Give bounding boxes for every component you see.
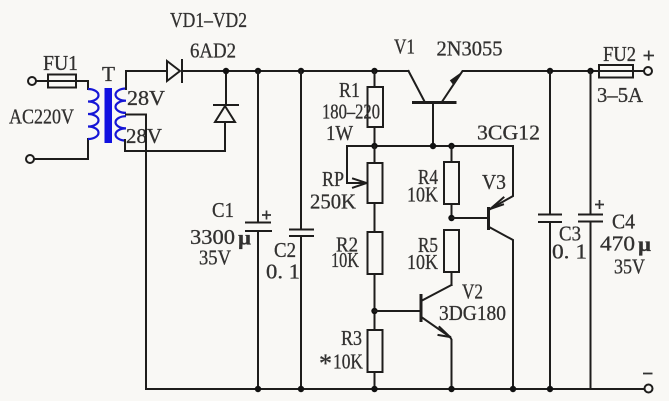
svg-text:µ: µ bbox=[238, 226, 251, 250]
capacitor C1 bbox=[246, 71, 271, 389]
label 3300u bbox=[190, 225, 251, 250]
capacitor C2 bbox=[290, 71, 313, 389]
label V2 bbox=[462, 280, 483, 304]
transformer T core bbox=[105, 88, 113, 143]
svg-text:RP: RP bbox=[322, 167, 344, 191]
svg-text:C2: C2 bbox=[274, 238, 296, 262]
svg-text:3–5A: 3–5A bbox=[597, 83, 644, 107]
capacitor C3 bbox=[539, 71, 561, 389]
label *10K bbox=[319, 349, 363, 378]
label 0.1 C3 bbox=[552, 240, 587, 264]
label 10K R2 bbox=[331, 248, 359, 272]
label 10K R5 bbox=[407, 250, 438, 274]
label plus FU2 bbox=[644, 51, 655, 61]
svg-text:35V: 35V bbox=[199, 246, 231, 270]
potentiometer RP bbox=[368, 146, 383, 232]
svg-text:FU1: FU1 bbox=[43, 51, 78, 75]
label 3CG12 bbox=[477, 121, 540, 145]
resistor R1 bbox=[368, 71, 384, 146]
svg-text:180–220: 180–220 bbox=[322, 100, 380, 124]
label R1 bbox=[339, 78, 360, 102]
transistor V2 bbox=[420, 285, 452, 389]
label C1 bbox=[212, 198, 234, 222]
transformer T secondary winding bbox=[116, 89, 127, 141]
label 35V C4 bbox=[614, 255, 645, 279]
node rail C1 bbox=[255, 68, 261, 74]
svg-text:3DG180: 3DG180 bbox=[439, 301, 506, 325]
diode VD1 bbox=[167, 60, 182, 82]
label R4 bbox=[418, 165, 438, 189]
node R2 R3 base V2 bbox=[371, 308, 377, 314]
svg-text:VD1–VD2: VD1–VD2 bbox=[170, 8, 247, 32]
label FU2 bbox=[603, 42, 636, 66]
svg-text:0. 1: 0. 1 bbox=[552, 240, 587, 264]
label 10K R4 bbox=[407, 183, 438, 207]
label 0.1 C2 bbox=[266, 260, 300, 284]
svg-text:10K: 10K bbox=[333, 350, 363, 374]
label R5 bbox=[418, 233, 438, 257]
svg-text:0. 1: 0. 1 bbox=[266, 260, 300, 284]
svg-text:T: T bbox=[102, 62, 115, 86]
svg-text:28V: 28V bbox=[127, 86, 165, 110]
wire RP wiper bbox=[347, 146, 367, 188]
label 35V C1 bbox=[199, 246, 231, 270]
svg-text:10K: 10K bbox=[331, 248, 359, 272]
svg-text:*: * bbox=[319, 349, 332, 378]
svg-text:V3: V3 bbox=[482, 170, 506, 194]
node bottom V3 bbox=[510, 386, 516, 392]
node mid R4 bbox=[448, 143, 454, 149]
label R3 bbox=[341, 326, 362, 350]
node bottom V2 bbox=[448, 386, 454, 392]
resistor R5 bbox=[444, 230, 459, 285]
label 28V bottom bbox=[126, 124, 162, 148]
svg-text:V1: V1 bbox=[394, 35, 415, 59]
wire secondary bottom to VD2 bbox=[125, 140, 225, 151]
label R2 bbox=[336, 233, 358, 257]
svg-text:1W: 1W bbox=[326, 121, 353, 145]
resistor R3 bbox=[368, 330, 383, 389]
node rail C4 bbox=[587, 68, 593, 74]
label 470u bbox=[600, 232, 651, 257]
wire bottom rail bbox=[146, 388, 645, 390]
fuse FU1 bbox=[48, 75, 76, 88]
svg-text:AC220V: AC220V bbox=[9, 105, 74, 129]
label 3DG180 bbox=[439, 301, 506, 325]
fuse FU2 bbox=[599, 65, 633, 78]
terminal output plus bbox=[644, 67, 652, 75]
wire secondary top to rail bbox=[126, 71, 167, 89]
node rail C3 bbox=[547, 68, 553, 74]
node bottom C3 bbox=[547, 386, 553, 392]
wire V2 base bbox=[375, 310, 420, 312]
resistor R4 bbox=[444, 146, 459, 218]
wire input bottom to primary bbox=[34, 139, 88, 159]
wire input top to FU1 bbox=[36, 81, 88, 89]
resistor R2 bbox=[368, 232, 383, 330]
svg-text:µ: µ bbox=[638, 232, 651, 256]
node bottom C2 bbox=[298, 386, 304, 392]
node R4 R5 base V3 bbox=[448, 215, 454, 221]
wire top rail left bbox=[182, 70, 409, 72]
svg-text:6AD2: 6AD2 bbox=[190, 39, 236, 63]
svg-text:10K: 10K bbox=[407, 250, 438, 274]
wire V3 base bbox=[452, 217, 488, 219]
wire top rail right bbox=[463, 70, 644, 72]
terminal input bottom bbox=[26, 155, 34, 163]
label V1 bbox=[394, 35, 415, 59]
svg-text:250K: 250K bbox=[310, 190, 356, 214]
transformer T primary winding bbox=[88, 89, 99, 139]
label C3 bbox=[559, 222, 581, 246]
node rail R1 bbox=[371, 68, 377, 74]
transistor V1 bbox=[409, 71, 463, 146]
svg-text:C4: C4 bbox=[612, 210, 635, 234]
transistor V3 bbox=[487, 146, 513, 389]
svg-text:R1: R1 bbox=[339, 78, 360, 102]
node mid V1 base bbox=[430, 143, 436, 149]
label 28V top bbox=[127, 86, 165, 110]
svg-text:35V: 35V bbox=[614, 255, 645, 279]
label 6AD2 bbox=[190, 39, 236, 63]
label V3 bbox=[482, 170, 506, 194]
label 2N3055 bbox=[437, 37, 503, 61]
label FU1 bbox=[43, 51, 78, 75]
label T bbox=[102, 62, 115, 86]
svg-text:28V: 28V bbox=[126, 124, 162, 148]
node rail VD2 bbox=[223, 68, 229, 74]
label C2 bbox=[274, 238, 296, 262]
svg-text:C1: C1 bbox=[212, 198, 234, 222]
svg-text:10K: 10K bbox=[407, 183, 438, 207]
label 1W bbox=[326, 121, 353, 145]
label RP bbox=[322, 167, 344, 191]
wire center tap down bbox=[126, 115, 146, 390]
node rail C2 bbox=[298, 68, 304, 74]
terminal input top bbox=[28, 77, 36, 85]
node mid R1 bbox=[371, 143, 377, 149]
diode VD2 bbox=[214, 71, 238, 151]
node bottom R3 bbox=[371, 386, 377, 392]
label AC220V bbox=[9, 105, 74, 129]
label VD1-VD2 bbox=[170, 8, 247, 32]
capacitor C4 bbox=[579, 71, 604, 389]
svg-text:470: 470 bbox=[600, 232, 635, 256]
svg-text:2N3055: 2N3055 bbox=[437, 37, 503, 61]
wire mid rail y146 bbox=[347, 145, 513, 147]
svg-text:FU2: FU2 bbox=[603, 42, 636, 66]
node bottom C1 bbox=[255, 386, 261, 392]
svg-text:3CG12: 3CG12 bbox=[477, 121, 540, 145]
label 180-220 bbox=[322, 100, 380, 124]
svg-text:V2: V2 bbox=[462, 280, 483, 304]
label C4 bbox=[612, 210, 635, 234]
terminal output minus bbox=[643, 374, 653, 393]
label 3-5A bbox=[597, 83, 644, 107]
label 250K bbox=[310, 190, 356, 214]
svg-text:R3: R3 bbox=[341, 326, 362, 350]
